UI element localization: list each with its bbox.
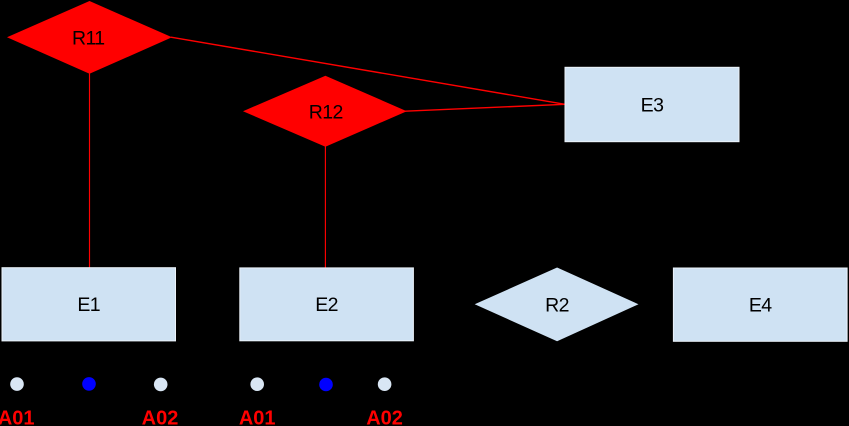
svg-text:R2: R2: [545, 295, 569, 317]
svg-text:E2: E2: [315, 294, 338, 316]
attribute dot 6 (light) under E2: [378, 377, 392, 391]
wire R11 to E1: [89, 73, 91, 268]
svg-text:A02: A02: [366, 408, 403, 426]
attribute dot 4 (light) under E2: [250, 377, 264, 391]
svg-text:E4: E4: [749, 295, 772, 317]
attribute dot 1 (light) under E1: [10, 377, 24, 391]
entity E3: [565, 67, 739, 141]
svg-text:A01: A01: [239, 408, 276, 426]
wire R11 to E3: [171, 37, 565, 104]
svg-text:R12: R12: [309, 102, 343, 124]
attribute dot 2 (blue) under E1: [82, 377, 96, 391]
relationship diamond R11: [7, 1, 172, 74]
attribute dot 3 (light) under E1: [154, 378, 168, 392]
relationship diamond R2: [475, 268, 639, 342]
svg-text:A01: A01: [0, 408, 35, 426]
entity E2: [240, 268, 414, 341]
relationship diamond R12: [243, 76, 407, 147]
attribute dot 5 (blue) under E2: [319, 378, 333, 392]
entity E1: [2, 268, 176, 341]
svg-text:R11: R11: [72, 28, 105, 50]
svg-text:A02: A02: [142, 408, 179, 426]
wire R12 to E3: [405, 104, 565, 111]
svg-text:E3: E3: [641, 95, 664, 117]
svg-text:E1: E1: [77, 294, 100, 316]
entity E4: [673, 268, 847, 341]
wire R12 to E2: [324, 146, 326, 268]
